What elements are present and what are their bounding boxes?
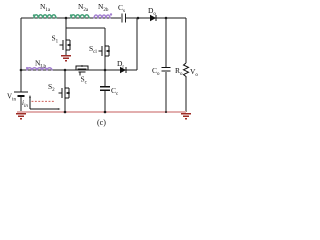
svg-text:(c): (c) [97,118,106,127]
